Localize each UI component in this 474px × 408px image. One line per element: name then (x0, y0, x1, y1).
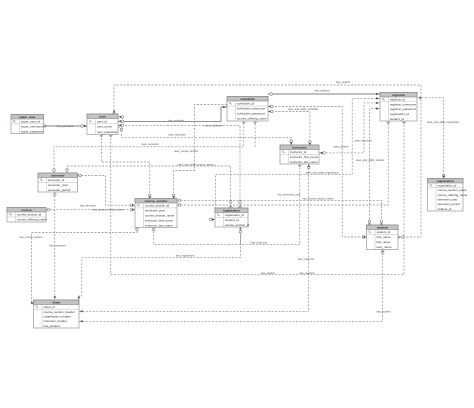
edge labels (19, 80, 459, 313)
svg-text:course_section_name: course_section_name (145, 213, 175, 217)
svg-text:uses_student: uses_student (333, 145, 349, 149)
svg-text:course_offering_name: course_offering_name (237, 117, 267, 121)
table course (7, 208, 47, 223)
svg-text:last_name: last_name (377, 240, 391, 244)
svg-text:super_user: super_user (19, 115, 36, 119)
svg-text:user_name: user_name (97, 125, 112, 129)
svg-text:user_id: user_id (97, 119, 107, 123)
wire scheduler-course_section (174, 105, 227, 199)
svg-text:uses_and_adds_schedule: uses_and_adds_schedule (288, 107, 319, 111)
svg-text:semester_year: semester_year (48, 183, 68, 187)
svg-text:instructor_last_name: instructor_last_name (290, 160, 318, 164)
svg-text:semester_year: semester_year (145, 209, 165, 213)
wire semester-course_section (78, 176, 136, 206)
svg-text:registrar: registrar (392, 93, 405, 97)
svg-text:uses_semester: uses_semester (141, 142, 159, 146)
wire instructor-sheet-loopB (79, 164, 309, 311)
svg-text:has_instructor: has_instructor (298, 257, 314, 261)
wire user-course_section (101, 135, 149, 199)
svg-text:student: student (377, 225, 388, 229)
svg-text:semester_period: semester_period (438, 202, 461, 206)
table registration (215, 208, 250, 227)
table registration (428, 179, 468, 212)
table super_user (11, 115, 44, 134)
wire user-scheduler (118, 107, 227, 121)
svg-text:uses_and_adds_registration: uses_and_adds_registration (427, 120, 460, 124)
wire scheduler-instructor (268, 112, 310, 146)
svg-text:course_section_id: course_section_id (145, 204, 170, 208)
wire student-sheet-loopC (79, 250, 383, 322)
svg-text:course_offering_name: course_offering_name (17, 218, 47, 222)
svg-text:student_id: student_id (390, 117, 404, 121)
svg-text:super_username: super_username (21, 124, 44, 128)
svg-text:course_section: course_section (145, 199, 168, 203)
wire semester-sheet (54, 192, 56, 300)
svg-text:has_student: has_student (261, 271, 275, 275)
table sheet (34, 300, 80, 328)
svg-text:student_id: student_id (438, 207, 452, 211)
svg-text:user_password: user_password (97, 130, 118, 134)
table user (87, 114, 118, 135)
table instructor (280, 145, 319, 164)
svg-text:uses_and_adds_course_section: uses_and_adds_course_section (177, 162, 215, 166)
svg-text:scheduler_id: scheduler_id (237, 102, 254, 106)
wire registration2-sheet-loopD (79, 229, 241, 300)
svg-text:has_registrar: has_registrar (299, 271, 314, 275)
svg-text:student_id: student_id (225, 218, 239, 222)
svg-text:instructor_last_name: instructor_last_name (145, 223, 173, 227)
wire semester-registration2 (67, 166, 231, 208)
svg-text:has_schedule: has_schedule (168, 118, 185, 122)
svg-text:organization_header: organization_header (44, 314, 71, 318)
wire super_user-user (44, 125, 88, 127)
svg-text:registration: registration (223, 208, 240, 212)
table registrar (380, 93, 417, 122)
svg-text:semester_period: semester_period (48, 188, 71, 192)
wire course-course_section (46, 209, 135, 211)
svg-text:has_student: has_student (336, 80, 350, 84)
svg-text:super_password: super_password (21, 129, 43, 133)
svg-text:registrar_username: registrar_username (390, 102, 416, 106)
svg-text:registration: registration (437, 179, 454, 183)
svg-text:registration_id: registration_id (390, 112, 409, 116)
svg-text:user: user (99, 114, 106, 118)
svg-text:uses_instructor: uses_instructor (168, 133, 186, 137)
svg-text:has_semester: has_semester (80, 203, 96, 207)
svg-text:semester_id: semester_id (48, 178, 65, 182)
svg-text:uses_and_adds_student: uses_and_adds_student (356, 158, 385, 162)
svg-text:course: course (21, 208, 31, 212)
wire registrar-registration (418, 98, 444, 179)
svg-text:super_user_id: super_user_id (21, 120, 40, 124)
svg-text:sheet: sheet (52, 300, 60, 304)
svg-text:has_semester_year: has_semester_year (278, 193, 301, 197)
svg-text:instructor_first_name: instructor_first_name (290, 155, 318, 159)
wire course_section-sheet (32, 228, 138, 304)
table course_section (135, 199, 177, 228)
wire user-registrar-loopA (111, 121, 404, 275)
wire instructor-registration2 (240, 164, 299, 245)
svg-text:has_student: has_student (44, 324, 61, 328)
svg-text:has_registration: has_registration (176, 254, 195, 258)
wire course_section-registration2 (154, 227, 241, 244)
svg-text:semester_year: semester_year (438, 198, 458, 202)
svg-text:sheet_id: sheet_id (44, 305, 56, 309)
wire instructor-registrar (319, 103, 380, 153)
svg-text:registration_id: registration_id (438, 184, 457, 188)
svg-text:use_password: use_password (57, 124, 74, 128)
svg-text:course_section_name: course_section_name (438, 188, 468, 192)
svg-text:scheduler: scheduler (240, 97, 255, 101)
wire semester-scheduler2 (254, 121, 256, 147)
svg-text:course_section_header: course_section_header (44, 310, 75, 314)
wire course_section-student (177, 200, 381, 225)
svg-text:course_section_id: course_section_id (225, 223, 250, 227)
svg-text:instructor_first_name: instructor_first_name (145, 218, 173, 222)
svg-text:registration_id: registration_id (225, 213, 244, 217)
wire user-instructor (118, 127, 291, 145)
svg-text:instructor_header: instructor_header (44, 319, 67, 323)
svg-text:uses_course_section: uses_course_section (174, 149, 199, 153)
svg-text:has_semester: has_semester (49, 244, 65, 248)
table scheduler (227, 97, 268, 122)
table student (367, 225, 399, 250)
wire course_section-registrar (177, 121, 388, 205)
wire registrar-student (370, 109, 381, 225)
svg-text:semester: semester (51, 173, 65, 177)
wire registrar-registration2 (216, 98, 381, 219)
table semester (38, 173, 78, 192)
wire semester-scheduler (54, 121, 244, 173)
svg-text:uses_instructor: uses_instructor (354, 138, 372, 142)
svg-text:has_course_section: has_course_section (19, 235, 43, 239)
svg-text:scheduler_username: scheduler_username (237, 107, 265, 111)
svg-text:first_name: first_name (377, 235, 391, 239)
wire scheduler-student (268, 107, 367, 238)
svg-text:uses_registrant: uses_registrant (205, 123, 223, 127)
svg-text:registrar_password: registrar_password (390, 107, 416, 111)
svg-text:has_instructor: has_instructor (251, 241, 267, 245)
svg-text:scheduler_password: scheduler_password (237, 112, 265, 116)
svg-text:has_student: has_student (376, 309, 390, 313)
svg-text:registrar_id: registrar_id (390, 98, 405, 102)
svg-text:has_course_section_name: has_course_section_name (302, 196, 334, 200)
svg-text:instructor: instructor (292, 145, 307, 149)
svg-text:user_name: user_name (377, 245, 392, 249)
relationship end symbols (31, 93, 445, 323)
svg-text:course_section_id: course_section_id (17, 213, 42, 217)
wire scheduler-registrar (268, 93, 380, 95)
svg-text:has_registrar: has_registrar (314, 89, 329, 93)
wire user-registration (118, 125, 240, 208)
svg-text:instructor_id: instructor_id (290, 150, 307, 154)
svg-text:uses_and_adds_registration: uses_and_adds_registration (306, 171, 339, 175)
svg-text:course_offering_name: course_offering_name (438, 193, 468, 197)
svg-text:has_course_section_name: has_course_section_name (92, 208, 124, 212)
svg-text:student_id: student_id (377, 230, 391, 234)
wire user-student (114, 85, 421, 237)
